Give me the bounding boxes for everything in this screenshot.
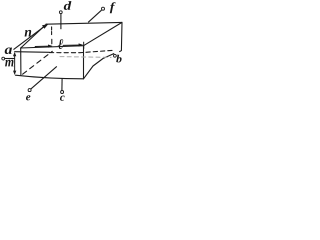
node n dimension arrow — [14, 24, 49, 49]
node m dimension arrow — [13, 52, 16, 75]
node f — [88, 7, 104, 22]
label f — [110, 2, 116, 13]
label m — [5, 60, 13, 67]
wire hidden back-bottom edge (dashed) — [50, 50, 115, 52]
wire top-left receding edge — [21, 24, 47, 48]
node l dimension arrows — [35, 42, 84, 49]
wire back-top edge — [46, 22, 122, 24]
label a — [5, 47, 12, 54]
node d — [59, 11, 62, 44]
label e — [26, 95, 30, 100]
node a — [2, 57, 15, 60]
wire horizontal line a through box — [15, 51, 50, 54]
node e — [28, 66, 57, 91]
wire front-right vertical edge — [83, 46, 85, 79]
wire back-right vertical edge — [120, 22, 122, 51]
wire top-right receding edge — [84, 22, 123, 45]
wire front-top edge — [21, 46, 84, 48]
wire faint print-through dashed line — [60, 56, 111, 59]
node b — [114, 54, 117, 57]
label d — [64, 1, 72, 10]
label l — [58, 39, 63, 49]
wire front-bottom edge — [15, 75, 83, 79]
label n — [25, 30, 32, 37]
wire bottom-right receding edge — [84, 54, 114, 79]
wire hidden bottom-left receding edge (dashed) — [23, 51, 53, 74]
wire front-left vertical edge — [20, 48, 22, 76]
label c — [60, 96, 65, 101]
label b — [116, 55, 121, 63]
wire hidden back-left vertical edge (dashed) — [51, 27, 53, 44]
node c — [61, 79, 64, 94]
